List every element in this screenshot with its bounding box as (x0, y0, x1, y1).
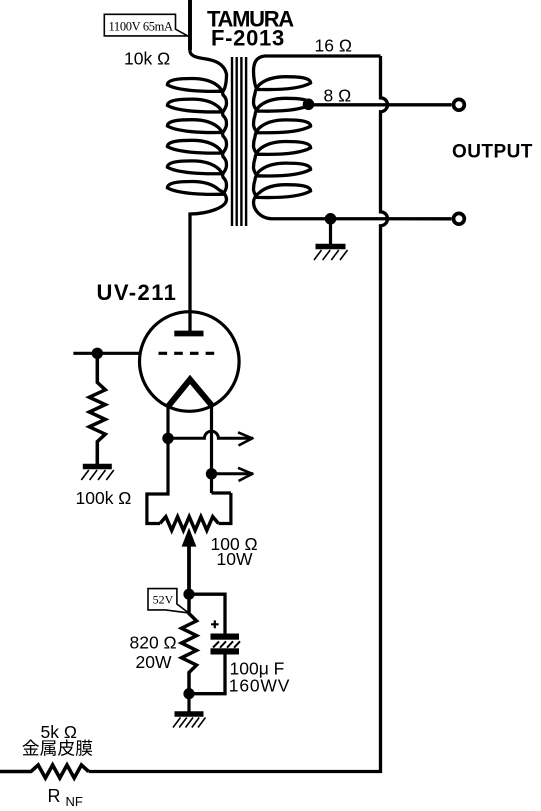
svg-text:UV-211: UV-211 (97, 280, 178, 305)
svg-text:10W: 10W (217, 549, 253, 569)
resistor 100k grid leak (89, 353, 105, 464)
node: bottom tap junction dot (325, 213, 337, 225)
wire: right filament leg down to pot (212, 405, 231, 524)
svg-text:1100V 65mA: 1100V 65mA (109, 20, 174, 34)
output terminal 2 (common) (454, 213, 465, 224)
node: 8 ohm tap junction dot (303, 99, 315, 111)
wire: B+ feed stub at very top (188, 0, 192, 50)
output terminal 1 (8 ohm) (454, 99, 465, 110)
tube plate bar (174, 331, 203, 337)
potentiometer 100 ohm 10W body (160, 517, 219, 531)
wire: cap branch top (189, 594, 225, 633)
svg-text:OUTPUT: OUTPUT (452, 142, 533, 163)
wire+arrow: filament supply B (212, 472, 251, 475)
resistor 820 ohm 20W (182, 594, 197, 694)
svg-text:8 Ω: 8 Ω (324, 86, 352, 106)
svg-text:F-2013: F-2013 (211, 26, 285, 51)
svg-text:100k Ω: 100k Ω (76, 488, 132, 508)
svg-text:5k Ω: 5k Ω (41, 722, 77, 742)
ground (314, 219, 348, 260)
svg-text:R: R (48, 786, 61, 806)
node: 52V junction dot (183, 589, 194, 600)
svg-text:16 Ω: 16 Ω (315, 36, 352, 56)
resistor R_NF 5k metal film (in feedback wire at bottom) (0, 765, 89, 778)
wire: cap branch bottom (189, 655, 225, 694)
svg-text:820 Ω: 820 Ω (130, 633, 177, 653)
wire: feedback line from 16ohm tap down right side, hops over taps (89, 56, 388, 772)
ground (81, 455, 114, 480)
node: grid junction dot (92, 348, 103, 359)
node: right filament junction dot (206, 468, 217, 479)
wire+arrow: filament supply A (hops right leg) (168, 431, 250, 438)
svg-text:52V: 52V (153, 592, 174, 606)
tube UV-211 envelope (140, 312, 240, 412)
label: metal film (kanji) (22, 740, 92, 756)
svg-text:160WV: 160WV (229, 676, 290, 696)
svg-text:NF: NF (66, 794, 83, 809)
node: cathode return junction dot (183, 688, 194, 699)
wire: 8 ohm tap to output terminal (309, 103, 452, 106)
tube grid (dashed) (159, 352, 215, 355)
tube filament (thick V) (168, 380, 212, 407)
transformer core (232, 57, 246, 226)
pot wiper arrow (183, 530, 195, 546)
transformer primary winding 10k + plate lead wire (167, 0, 226, 332)
label: 52V callout box (148, 589, 189, 613)
ground (173, 694, 206, 728)
transformer secondary winding + 16ohm wire + bottom tap wire (254, 56, 452, 219)
svg-text:10k Ω: 10k Ω (124, 49, 170, 69)
wire: grid lead going left (73, 352, 139, 355)
svg-text:20W: 20W (136, 652, 172, 672)
capacitor 100uF 160WV (electrolytic) (211, 634, 241, 655)
wire: left filament leg down to pot (147, 406, 168, 524)
label: 1100V 65mA callout box (104, 14, 188, 36)
node: left filament junction dot (162, 433, 173, 444)
cap + polarity mark (211, 620, 219, 628)
